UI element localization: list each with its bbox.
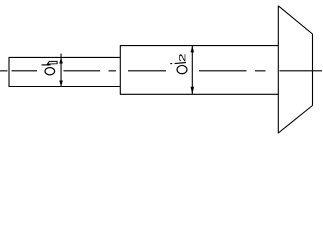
node G bbox=[177, 65, 187, 73]
node F bbox=[191, 87, 195, 95]
wire bbox=[12, 70, 38, 72]
wire bbox=[170, 63, 172, 65]
wire bbox=[278, 6, 312, 34]
wire bbox=[191, 46, 193, 95]
wire bbox=[120, 93, 278, 95]
node D bbox=[47, 61, 57, 64]
wire bbox=[0, 70, 8, 72]
small shaft section (d1) bbox=[9, 57, 120, 87]
wire bbox=[120, 45, 278, 47]
wire bbox=[128, 70, 166, 72]
middle shaft section (d2) bbox=[120, 45, 278, 95]
node H bbox=[179, 54, 185, 61]
wire bbox=[280, 70, 323, 72]
label d2 bbox=[170, 54, 187, 74]
wire bbox=[60, 54, 62, 87]
wire bbox=[119, 45, 121, 95]
wire bbox=[255, 70, 266, 72]
wire bbox=[175, 63, 186, 64]
node B bbox=[59, 81, 63, 87]
centerline (axis, dash-dot) bbox=[0, 70, 322, 72]
wire bbox=[278, 106, 312, 134]
wire bbox=[277, 6, 279, 134]
wire bbox=[64, 70, 101, 72]
label d1 bbox=[42, 61, 58, 74]
dimension d1 bbox=[59, 54, 63, 87]
wire bbox=[312, 34, 314, 106]
wire bbox=[42, 64, 51, 66]
wire bbox=[9, 86, 120, 88]
node A bbox=[59, 58, 63, 64]
dimension d2 bbox=[191, 46, 195, 95]
wire bbox=[199, 70, 247, 72]
wire bbox=[109, 70, 117, 72]
node C bbox=[45, 68, 55, 75]
wire bbox=[8, 57, 10, 87]
head (conical) bbox=[278, 6, 312, 134]
wire bbox=[9, 56, 120, 58]
node E bbox=[191, 46, 195, 53]
